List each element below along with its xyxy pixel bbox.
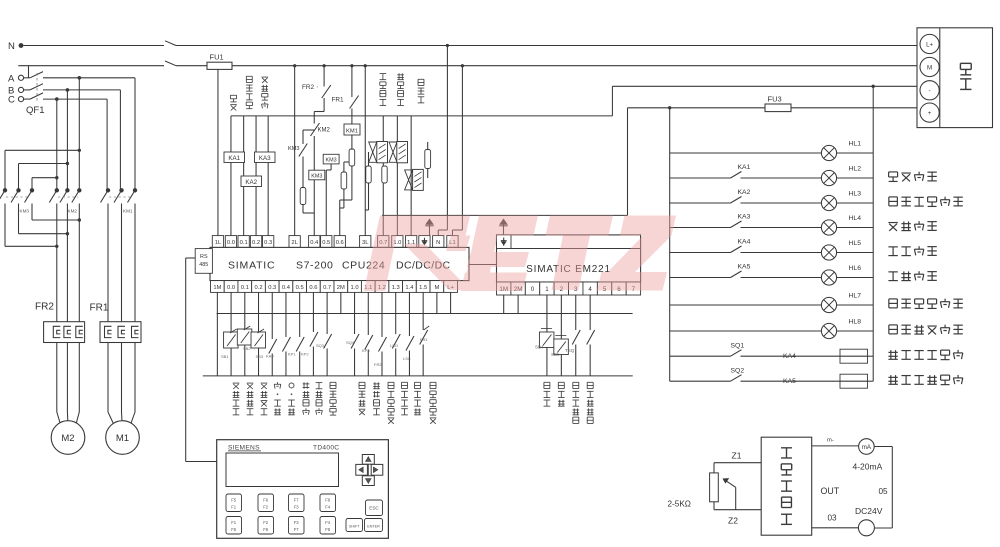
svg-text:S7-200: S7-200 bbox=[296, 259, 333, 271]
svg-text:SB1: SB1 bbox=[221, 354, 229, 359]
svg-text:0.3: 0.3 bbox=[264, 240, 272, 246]
svg-text:SB5: SB5 bbox=[551, 352, 560, 357]
svg-text:0.3: 0.3 bbox=[268, 285, 276, 291]
svg-text:SQ4: SQ4 bbox=[346, 340, 355, 345]
svg-text:SQ2: SQ2 bbox=[731, 368, 745, 375]
svg-text:0.5: 0.5 bbox=[322, 240, 330, 246]
svg-text:1L: 1L bbox=[215, 240, 222, 246]
svg-text:0.6: 0.6 bbox=[336, 240, 344, 246]
svg-text:F5: F5 bbox=[231, 498, 237, 503]
svg-text:2M: 2M bbox=[337, 285, 345, 291]
svg-text:4: 4 bbox=[588, 286, 592, 293]
svg-text:,: , bbox=[317, 83, 318, 89]
svg-text:2-5KΩ: 2-5KΩ bbox=[668, 500, 691, 509]
svg-text:QF1: QF1 bbox=[26, 105, 44, 116]
svg-text:KA5: KA5 bbox=[738, 264, 751, 271]
svg-text:KA4: KA4 bbox=[738, 239, 751, 246]
svg-text:F7: F7 bbox=[294, 527, 300, 532]
svg-text:KA1: KA1 bbox=[228, 155, 240, 162]
svg-text:F7: F7 bbox=[294, 498, 300, 503]
svg-text:F8: F8 bbox=[325, 527, 331, 532]
svg-text:F4: F4 bbox=[325, 505, 331, 510]
svg-text:KM1: KM1 bbox=[123, 209, 133, 214]
svg-text:m-: m- bbox=[827, 438, 834, 444]
svg-text:SB3: SB3 bbox=[256, 354, 264, 359]
svg-text:0.7: 0.7 bbox=[323, 285, 331, 291]
svg-text:FR1: FR1 bbox=[90, 303, 109, 314]
svg-text:F8: F8 bbox=[325, 498, 331, 503]
svg-text:0.2: 0.2 bbox=[254, 285, 262, 291]
svg-text:HL6: HL6 bbox=[849, 265, 862, 272]
svg-text:DC24V: DC24V bbox=[855, 506, 883, 516]
svg-text:KM3: KM3 bbox=[326, 158, 337, 164]
svg-text:4-20mA: 4-20mA bbox=[853, 462, 883, 472]
svg-text:F3: F3 bbox=[294, 505, 300, 510]
svg-text:0.4: 0.4 bbox=[282, 285, 291, 291]
svg-text:1.3: 1.3 bbox=[392, 285, 400, 291]
svg-text:HL1: HL1 bbox=[849, 141, 862, 148]
svg-text:1M: 1M bbox=[213, 285, 221, 291]
svg-text:C: C bbox=[8, 95, 15, 106]
svg-text:SQ3: SQ3 bbox=[316, 343, 325, 348]
svg-text:mA: mA bbox=[862, 444, 872, 451]
svg-text:FR1: FR1 bbox=[332, 97, 345, 104]
svg-text:HL3: HL3 bbox=[849, 191, 862, 198]
svg-text:05: 05 bbox=[879, 487, 889, 496]
svg-text:KA5: KA5 bbox=[783, 378, 796, 385]
svg-text:M2: M2 bbox=[61, 433, 74, 444]
svg-text:HL8: HL8 bbox=[849, 319, 862, 326]
svg-text:1.4: 1.4 bbox=[405, 285, 414, 291]
svg-text:KA2: KA2 bbox=[245, 179, 257, 186]
svg-text:HL4: HL4 bbox=[849, 215, 862, 222]
svg-text:FR2: FR2 bbox=[374, 362, 382, 367]
svg-text:KP2: KP2 bbox=[301, 352, 309, 357]
svg-text:KM2: KM2 bbox=[68, 209, 78, 214]
svg-text:ENTER: ENTER bbox=[367, 525, 380, 529]
svg-text:TSQ: TSQ bbox=[565, 348, 575, 353]
svg-text:0.6: 0.6 bbox=[309, 285, 317, 291]
svg-text:KM1: KM1 bbox=[346, 128, 358, 134]
svg-text:M1: M1 bbox=[116, 433, 129, 444]
svg-text:F1: F1 bbox=[231, 520, 237, 525]
svg-text:SHIFT: SHIFT bbox=[349, 525, 360, 529]
svg-text:A: A bbox=[8, 73, 15, 84]
svg-text:+: + bbox=[928, 110, 932, 117]
svg-text:OUT: OUT bbox=[821, 486, 840, 496]
svg-text:F6: F6 bbox=[263, 498, 269, 503]
svg-text:0.2: 0.2 bbox=[252, 240, 260, 246]
svg-text:0: 0 bbox=[531, 286, 535, 293]
svg-text:KM3: KM3 bbox=[20, 209, 30, 214]
svg-text:RS: RS bbox=[200, 254, 208, 260]
svg-text:HL5: HL5 bbox=[849, 240, 862, 247]
svg-text:-: - bbox=[929, 88, 931, 95]
svg-text:0.1: 0.1 bbox=[241, 285, 249, 291]
svg-text:N: N bbox=[436, 240, 440, 246]
svg-text:KP1: KP1 bbox=[288, 352, 296, 357]
svg-text:FR1: FR1 bbox=[420, 337, 428, 342]
svg-text:L+: L+ bbox=[926, 41, 933, 48]
svg-text:KP3: KP3 bbox=[362, 348, 370, 353]
svg-text:F4: F4 bbox=[325, 520, 331, 525]
svg-text:FU1: FU1 bbox=[210, 53, 224, 62]
svg-text:LSO: LSO bbox=[390, 343, 398, 348]
svg-text:SB2: SB2 bbox=[243, 346, 251, 351]
svg-text:ESC: ESC bbox=[369, 506, 379, 511]
svg-text:F5: F5 bbox=[231, 527, 237, 532]
svg-text:KA3: KA3 bbox=[738, 214, 751, 221]
svg-text:SIMATIC: SIMATIC bbox=[228, 259, 275, 271]
svg-text:FR2: FR2 bbox=[302, 84, 315, 91]
svg-text:FR2: FR2 bbox=[35, 302, 54, 313]
svg-text:KA3: KA3 bbox=[259, 155, 271, 162]
svg-text:F2: F2 bbox=[263, 520, 269, 525]
svg-text:N: N bbox=[8, 41, 15, 52]
svg-text:F3: F3 bbox=[294, 520, 300, 525]
svg-text:0.5: 0.5 bbox=[296, 285, 304, 291]
svg-text:KA2: KA2 bbox=[738, 189, 751, 196]
svg-text:SB4: SB4 bbox=[535, 345, 544, 350]
svg-text:HL7: HL7 bbox=[849, 293, 862, 300]
svg-text:M: M bbox=[434, 285, 439, 291]
svg-text:KA1: KA1 bbox=[738, 164, 751, 171]
svg-text:M: M bbox=[927, 64, 932, 71]
svg-text:2L: 2L bbox=[291, 240, 298, 246]
svg-text:485: 485 bbox=[199, 262, 208, 268]
svg-text:KM3: KM3 bbox=[288, 146, 300, 152]
svg-text:KM3: KM3 bbox=[311, 174, 322, 180]
svg-text:HL2: HL2 bbox=[849, 166, 862, 173]
svg-text:KM2: KM2 bbox=[318, 128, 331, 134]
svg-text:1.5: 1.5 bbox=[419, 285, 427, 291]
svg-text:TD400C: TD400C bbox=[313, 444, 339, 451]
svg-text:KA4: KA4 bbox=[783, 353, 796, 360]
svg-text:SIEMENS: SIEMENS bbox=[228, 444, 260, 451]
svg-text:F1: F1 bbox=[231, 505, 237, 510]
svg-text:F6: F6 bbox=[263, 527, 269, 532]
svg-text:1: 1 bbox=[545, 286, 549, 293]
svg-text:3L: 3L bbox=[362, 240, 369, 246]
svg-text:Z2: Z2 bbox=[728, 516, 738, 526]
svg-text:0.0: 0.0 bbox=[227, 285, 235, 291]
svg-text:F2: F2 bbox=[263, 505, 269, 510]
svg-text:SQ1: SQ1 bbox=[731, 343, 745, 350]
svg-text:0.0: 0.0 bbox=[227, 240, 235, 246]
svg-text:Z1: Z1 bbox=[732, 451, 742, 461]
svg-text:0.1: 0.1 bbox=[240, 240, 248, 246]
svg-text:0.4: 0.4 bbox=[310, 240, 319, 246]
svg-text:FU3: FU3 bbox=[768, 95, 782, 104]
svg-text:LSC: LSC bbox=[403, 356, 411, 361]
svg-text:1.0: 1.0 bbox=[351, 285, 359, 291]
svg-text:03: 03 bbox=[828, 514, 838, 523]
svg-text:KA0: KA0 bbox=[266, 354, 274, 359]
